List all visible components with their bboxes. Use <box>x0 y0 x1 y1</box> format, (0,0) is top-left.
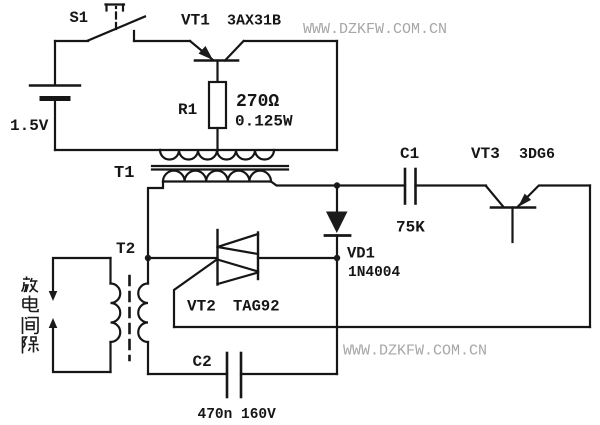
spark gap electrode upper <box>49 291 58 301</box>
wire mid horizontal left part <box>148 257 218 259</box>
capacitor C2 <box>148 353 337 397</box>
svg-text:0.125W: 0.125W <box>235 113 293 131</box>
svg-text:WWW.DZKFW.COM.CN: WWW.DZKFW.COM.CN <box>303 21 447 38</box>
svg-text:R1: R1 <box>178 101 197 119</box>
thyristor VT2 TAG92 <box>218 230 259 285</box>
svg-text:T2: T2 <box>116 240 135 258</box>
chinese label dian (electric) <box>23 296 38 312</box>
wire bottom long run <box>174 326 590 328</box>
transistor VT3 3DG6 <box>486 186 539 242</box>
T2 core dashed <box>128 276 131 360</box>
wire battery top to switch <box>55 40 88 42</box>
svg-text:WWW.DZKFW.COM.CN: WWW.DZKFW.COM.CN <box>343 343 487 360</box>
svg-text:3DG6: 3DG6 <box>519 146 555 163</box>
wire VT3 collector to right edge <box>540 184 590 186</box>
svg-text:270Ω: 270Ω <box>236 92 279 112</box>
wire VT2 gate <box>174 259 218 327</box>
wire VT1 collector to right corner <box>244 40 337 42</box>
node at VD1 anode <box>334 182 340 188</box>
svg-text:3AX31B: 3AX31B <box>227 13 281 30</box>
transformer T2 secondary winding <box>138 258 148 374</box>
wire right vertical (collector side) <box>336 41 338 150</box>
svg-text:C2: C2 <box>193 353 212 371</box>
svg-text:VT1: VT1 <box>181 12 210 30</box>
svg-text:470n 160V: 470n 160V <box>198 407 277 423</box>
resistor R1 <box>209 61 226 152</box>
chinese label jian (gap) <box>23 317 39 334</box>
diode VD1 1N4004 <box>325 186 350 375</box>
node VD1 cathode junction <box>334 255 340 261</box>
wire mid horizontal right part <box>258 257 337 259</box>
T1 core <box>152 166 288 170</box>
wire spark-gap loop top <box>53 258 111 291</box>
svg-text:VT2: VT2 <box>187 298 216 316</box>
transformer T2 primary winding <box>111 258 121 372</box>
svg-text:TAG92: TAG92 <box>233 298 280 316</box>
svg-text:75K: 75K <box>396 219 425 237</box>
capacitor C1 <box>405 169 486 204</box>
svg-text:C1: C1 <box>400 145 419 163</box>
svg-text:VD1: VD1 <box>347 245 375 263</box>
wire far right vertical <box>589 186 591 328</box>
transformer T1 secondary winding <box>148 171 405 258</box>
spark gap electrode lower <box>49 318 58 328</box>
wire spark-gap loop bottom <box>53 328 111 372</box>
chinese label fang (discharge) <box>22 277 39 293</box>
battery 1.5V <box>30 41 80 150</box>
wire battery bottom to T1 <box>55 149 160 151</box>
switch S1 <box>88 5 145 42</box>
transistor VT1 3AX31B <box>190 41 244 61</box>
wire switch to VT1 emitter <box>134 40 190 42</box>
svg-text:1N4004: 1N4004 <box>348 265 401 281</box>
transformer T1 primary winding <box>160 150 337 160</box>
svg-text:VT3: VT3 <box>471 145 500 163</box>
svg-text:S1: S1 <box>70 9 89 27</box>
svg-text:T1: T1 <box>114 164 134 183</box>
chinese label xi (crevice) <box>23 336 39 354</box>
svg-text:1.5V: 1.5V <box>10 117 49 135</box>
node T2 top <box>145 255 151 261</box>
